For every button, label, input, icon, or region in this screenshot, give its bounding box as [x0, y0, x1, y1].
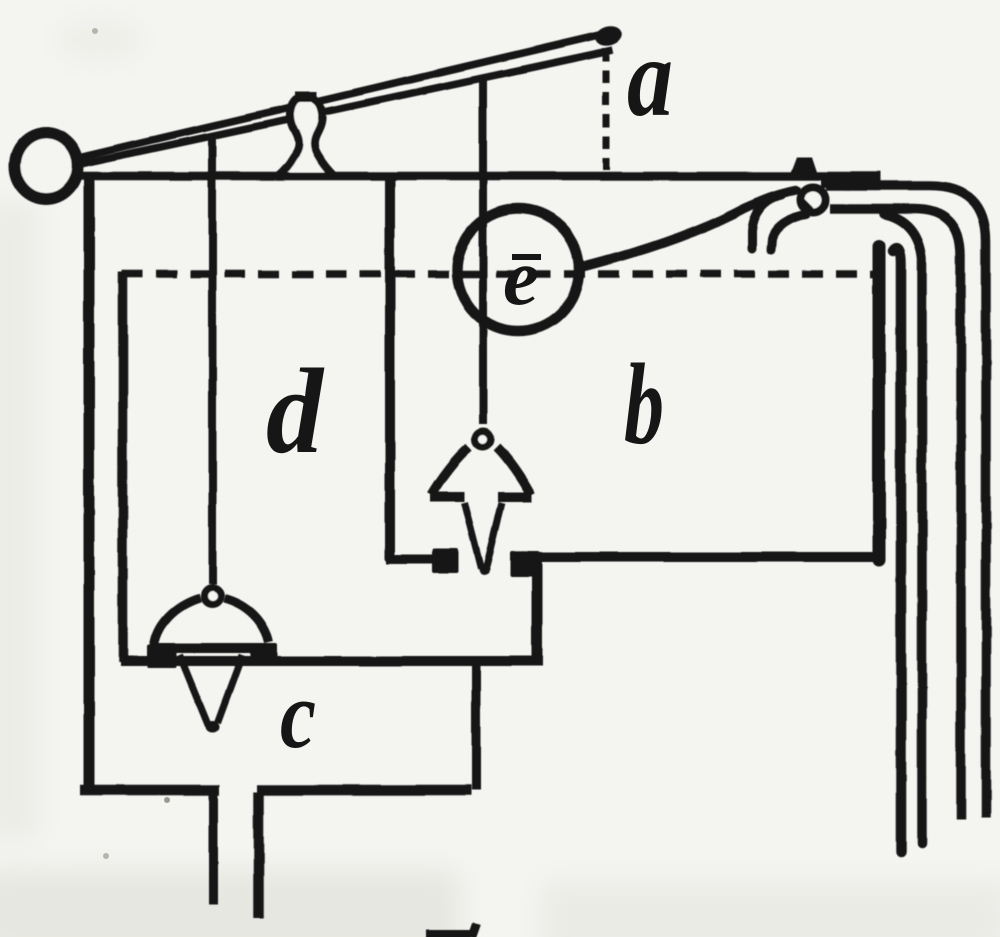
wire: bottom line of chamber b	[526, 552, 880, 562]
wire: left outer wall of vessel	[84, 176, 95, 792]
centre valve: left foot	[430, 492, 464, 502]
svg-text:b: b	[624, 341, 664, 469]
wire: dashed drop line under lever end	[603, 48, 610, 170]
svg-text:ɑ: ɑ	[627, 16, 673, 140]
lever: lower line of float arm	[81, 50, 613, 164]
rod: lever to centre valve through ball e	[479, 78, 487, 424]
fulcrum pedestal on top line	[268, 96, 343, 176]
wire: right wall of chamber c	[472, 661, 481, 790]
pipe: drain pipe right wall	[253, 792, 264, 918]
centre valve: left wing	[431, 447, 469, 495]
cock: round body	[801, 188, 826, 213]
wire: top line of chamber c	[120, 656, 543, 666]
lever: thickened right end of arm	[594, 24, 625, 49]
bell valve: dome left side	[154, 598, 200, 646]
bell valve: cone left side	[180, 655, 209, 726]
svg-text:e: e	[503, 234, 539, 322]
bell valve: right seat block	[251, 643, 277, 663]
float ball on lever	[15, 133, 78, 200]
rod: float lever to bell valve	[208, 133, 216, 584]
cock: spout outer wall	[752, 195, 782, 249]
bell valve: cone tip	[206, 721, 220, 733]
wire: bottom line of chamber c left segment	[80, 785, 219, 796]
cock: spout inner wall	[771, 215, 806, 250]
centre valve: right wing	[497, 447, 531, 495]
wire: curved link from ball e to cock	[582, 190, 796, 267]
svg-text:d: d	[266, 344, 325, 479]
centre valve: knob head	[475, 431, 491, 447]
pipe: supply pipe inner wall	[830, 209, 961, 820]
wire: dashed water-level line	[122, 270, 874, 278]
pipe: supply pipe outer wall (top and right)	[826, 186, 986, 818]
paper speck lower left	[103, 853, 109, 859]
bell valve: dome right side	[224, 598, 269, 642]
wire: right wall of chamber d	[385, 176, 395, 560]
centre valve: left seat block	[432, 549, 458, 573]
svg-text:c: c	[280, 661, 316, 768]
cock: knob above top line	[789, 157, 819, 178]
centre valve: cone tip	[479, 565, 489, 575]
wire: valve seat line left of centre valve	[386, 555, 454, 564]
centre valve: cone right side	[486, 503, 502, 569]
junction: main line merging with supply pipe top wall	[821, 173, 881, 188]
wire: right wall of chamber b	[873, 246, 886, 560]
centre valve: right foot	[498, 492, 532, 502]
pipe: overflow pipe outer wall	[884, 214, 922, 843]
bell valve: knob head	[204, 588, 221, 605]
wire: inner left wall of chamber d	[118, 272, 128, 662]
paper speck left	[164, 797, 170, 803]
bell valve: bottom rim	[153, 643, 268, 653]
paper speck top left	[92, 28, 98, 34]
centre valve: cone left side	[464, 503, 481, 569]
bell valve: left seat block	[147, 645, 177, 668]
wire: step wall between b and c	[532, 557, 543, 665]
wire: main top horizontal line	[79, 172, 881, 181]
caption fragment: top of Fig text	[426, 929, 470, 937]
ball e: counterweight on centre rod	[457, 209, 579, 331]
lever: upper line of float arm	[80, 32, 612, 157]
centre valve: right seat block	[510, 551, 540, 577]
cock: dark plug wedge inside body	[803, 198, 816, 211]
bell valve: cone right side	[218, 655, 243, 723]
pipe: drain pipe left wall	[209, 792, 218, 905]
pipe: overflow pipe inner wall	[893, 248, 901, 851]
wire: bottom line of chamber c right segment	[257, 785, 471, 796]
